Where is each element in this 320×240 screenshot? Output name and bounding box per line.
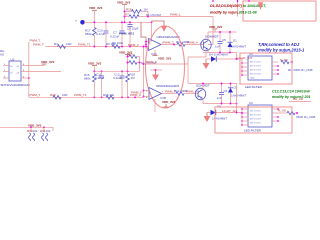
resistor R21 rung B: [128, 61, 140, 65]
wire exit top right of box C: [289, 97, 311, 102]
svg-text:OPA2340UA/2K5: OPA2340UA/2K5: [157, 35, 180, 39]
wire PWM_T vertical: [28, 42, 30, 97]
resistor R14 330R: [280, 58, 313, 72]
resistor R31 vertical: [40, 127, 51, 142]
svg-text:0.22uF: 0.22uF: [113, 76, 123, 80]
diode D1 1N4148WT: [228, 32, 247, 53]
wire center rail y=71.3: [94, 70, 139, 72]
wire stub top edge: [237, 0, 239, 17]
svg-text:IN2 VOUT2: IN2 VOUT2: [250, 114, 262, 116]
transistor Q2: [195, 84, 210, 100]
svg-text:IN1 VOUT1: IN1 VOUT1: [250, 62, 262, 64]
svg-text:1M: 1M: [144, 7, 149, 11]
wire U5 input bus: [236, 53, 238, 60]
resistor R15 vertical: [84, 71, 96, 97]
resistor R18 vertical: [126, 71, 136, 97]
svg-text:LIGHT_AD: LIGHT_AD: [222, 109, 238, 113]
svg-text:VDD_3V3: VDD_3V3: [158, 57, 172, 61]
svg-text:10k: 10k: [46, 129, 51, 133]
power VDD_3V3 center-left: [89, 6, 103, 22]
diode D2 1N4148WT: [228, 84, 246, 104]
svg-text:680k: 680k: [85, 32, 92, 36]
IC U2: [1, 57, 31, 87]
svg-text:GND: GND: [250, 78, 255, 80]
power VDD_3V3 upper stage: [209, 25, 223, 32]
resistor R28 rung1: [125, 7, 149, 13]
svg-text:1uF: 1uF: [217, 96, 222, 100]
svg-text:IN3 VOUT3: IN3 VOUT3: [250, 118, 262, 120]
junction dots op-amp inputs: [145, 41, 147, 48]
capacitor C9 10pF: [127, 22, 139, 46]
svg-text:IN1 VOUT1: IN1 VOUT1: [250, 110, 262, 112]
svg-text:0.47uF: 0.47uF: [96, 32, 106, 36]
svg-text:1N4148WT: 1N4148WT: [231, 45, 246, 49]
resistor R30 vertical: [27, 127, 38, 142]
svg-text:G: G: [75, 21, 77, 23]
resistor R19 10R: [50, 93, 68, 99]
junction dots upper stage: [219, 31, 231, 53]
svg-text:LED FILTER: LED FILTER: [244, 129, 262, 133]
svg-text:VDD_3V3: VDD_3V3: [28, 123, 42, 127]
ground arrow bottom row: [204, 113, 211, 123]
svg-text:R6 10k: R6 10k: [106, 42, 116, 46]
svg-text:VDD_3V3: VDD_3V3: [88, 62, 102, 66]
wire left bottom rail y=127.3: [0, 127, 53, 131]
svg-text:IN2 VOUT2: IN2 VOUT2: [250, 66, 262, 68]
capacitor C10: [96, 22, 109, 46]
annotation box B around U5: [240, 53, 292, 84]
capacitor C12 vertical: [113, 71, 125, 97]
svg-text:VDD_3V3: VDD_3V3: [209, 25, 223, 29]
wire bottom rail lower stage: [203, 103, 237, 105]
net label RH_AD left: [0, 49, 5, 57]
annotation text D1,D2,D3,D9 note: [210, 4, 266, 15]
op-amp U3A: [146, 39, 164, 57]
IC U6: [241, 101, 279, 133]
top edge magenta ticks: [213, 0, 249, 2]
resistor R12 100R: [174, 89, 198, 95]
resistor R13: [278, 108, 315, 119]
svg-text:modify by xujunc2 201: modify by xujunc2 201: [272, 95, 311, 99]
ground arrow under wire y=70: [152, 70, 159, 81]
svg-text:U2: U2: [11, 57, 15, 61]
svg-text:modify by xujun,2013-1: modify by xujun,2013-1: [258, 48, 305, 53]
wire bottom PWM row y=97.3: [29, 96, 144, 98]
resistor R4: [54, 42, 72, 48]
wire U2 pin4 to PWM_T vertical: [27, 77, 29, 79]
svg-text:33R0 Rx_FDB: 33R0 Rx_FDB: [296, 115, 315, 119]
resistor R6: [106, 42, 120, 48]
svg-text:C6: C6: [224, 89, 228, 93]
power VDD_3V3 center rail: [88, 62, 102, 72]
svg-text:D4 1N4148WT: D4 1N4148WT: [209, 53, 229, 57]
capacitor C7 0.22uF: [110, 22, 125, 46]
svg-text:10k: 10k: [33, 129, 38, 133]
op-amp U3B: [146, 88, 166, 101]
wire U6 input bus: [241, 109, 243, 125]
svg-text:R_AD: R_AD: [278, 108, 287, 112]
resistor R16 10k: [103, 93, 115, 99]
svg-text:C5: C5: [222, 38, 226, 42]
wire Q2 emitter: [202, 99, 204, 104]
wire U2 pin6 to VDD: [27, 60, 55, 66]
svg-text:R16 10k: R16 10k: [103, 93, 115, 97]
svg-text:D8: D8: [217, 105, 221, 109]
wire feedback into op-amp + input: [141, 22, 146, 44]
svg-text:IN4 VOUT4: IN4 VOUT4: [250, 74, 262, 76]
wire Q2 collector to rail y=83: [202, 84, 204, 90]
annotation arrow top: [258, 2, 263, 10]
svg-text:R28: R28: [126, 7, 132, 11]
annotation text C12,C13,C14: [272, 90, 311, 100]
wire op-amp1 output: [161, 44, 177, 46]
wire bottom rail upper stage: [203, 52, 237, 54]
diode D8 1N4148WT: [211, 105, 228, 121]
svg-text:PWM_T: PWM_T: [30, 39, 41, 43]
annotation box C around U6: [215, 107, 292, 133]
junction dots bottom row: [93, 96, 136, 98]
wire bottom row y=112.5: [207, 112, 242, 114]
svg-text:VDD_3V3: VDD_3V3: [117, 0, 131, 4]
vertical feedback wire x=143.5: [143, 47, 145, 97]
svg-text:IN4 VOUT4: IN4 VOUT4: [250, 122, 262, 124]
transistor Q1: [200, 35, 219, 51]
svg-text:PWM_T: PWM_T: [30, 93, 41, 97]
svg-text:PWM_AD1: PWM_AD1: [119, 32, 134, 36]
svg-text:10R: 10R: [66, 42, 72, 46]
wire LIGHT row y=59: [206, 58, 242, 60]
capacitor C11 vertical: [95, 71, 105, 97]
wire lower rail down to LIGHT row: [236, 84, 238, 113]
wire top rail upper stage: [208, 31, 237, 33]
wire rung join vertical: [139, 57, 141, 72]
wire down to Q1 base: [208, 17, 213, 45]
ground arrow mid: [203, 59, 210, 69]
svg-text:modify by xujun,2013-11-08: modify by xujun,2013-11-08: [210, 11, 257, 15]
resistor R20 rung A: [127, 53, 140, 59]
junction dots lower stage: [202, 83, 237, 105]
svg-text:680k: 680k: [84, 77, 91, 81]
IC U5: [241, 52, 279, 89]
wire mid horizontal PWM_5: [144, 63, 189, 65]
resistor R7 rung2: [125, 12, 214, 18]
svg-text:OPA2340UA/2K5: OPA2340UA/2K5: [156, 84, 179, 88]
svg-text:VDD_3V3: VDD_3V3: [89, 6, 103, 10]
power VDD_3V3 mid: [119, 50, 133, 71]
wire rail y=83: [188, 83, 237, 85]
svg-text:C9 10pF: C9 10pF: [127, 27, 139, 31]
svg-text:VDD_3V3: VDD_3V3: [162, 100, 176, 104]
annotation arrow into ellipse: [152, 21, 168, 32]
wire VDD bus y=22.3: [84, 21, 152, 23]
wire rung1 to rung2: [147, 12, 149, 17]
ellipse annotation: [146, 26, 185, 108]
wire op-amp2 output: [162, 93, 177, 95]
annotation text T,RH connect: [258, 42, 305, 53]
svg-text:T_AD: T_AD: [280, 58, 289, 62]
capacitor C5 upper stage: [215, 32, 226, 53]
wire Q1 collector to rail: [207, 32, 209, 40]
svg-text:1N4148WT: 1N4148WT: [231, 94, 246, 98]
svg-text:1uF: 1uF: [215, 45, 220, 49]
svg-text:D1,D2,D3,D9(4007) to 1N4148WT,: D1,D2,D3,D9(4007) to 1N4148WT,: [210, 4, 266, 8]
junction dot output: [173, 44, 175, 46]
svg-text:R7: R7: [125, 12, 129, 16]
svg-text:C12,C13,C14 104/10nF: C12,C13,C14 104/10nF: [272, 90, 311, 94]
svg-text:D1: D1: [233, 39, 237, 43]
svg-text:10R: 10R: [62, 93, 68, 97]
junction dots bottom left: [30, 126, 45, 128]
svg-text:PWM_T: PWM_T: [33, 42, 44, 46]
wire y=70 with ground arrow: [150, 69, 162, 71]
wire U2 pin5: [27, 71, 61, 73]
svg-text:PWM_4: PWM_4: [187, 40, 198, 44]
svg-text:R19: R19: [50, 93, 56, 97]
capacitor C6 lower stage: [217, 84, 228, 104]
svg-text:PWM_5: PWM_5: [146, 60, 157, 64]
wires op-amp2 inputs: [144, 90, 150, 92]
wire Q1 emitter to rail: [207, 49, 209, 53]
svg-text:PWM_T1: PWM_T1: [78, 43, 91, 47]
svg-text:1N4148WT: 1N4148WT: [212, 117, 227, 121]
resistor R11 100R: [176, 40, 203, 46]
svg-text:SCHMIDT: SCHMIDT: [205, 35, 219, 39]
wire main input line y=46.5: [46, 46, 149, 48]
power VDD_3V3 op-amp U3A: [153, 50, 172, 61]
node GND off-page connector top-left: [75, 20, 85, 25]
svg-text:D3: D3: [234, 86, 238, 90]
svg-text:PWM_1: PWM_1: [170, 12, 181, 16]
svg-text:PWM_9: PWM_9: [130, 93, 141, 97]
svg-text:SN74LVC2G66DCUR: SN74LVC2G66DCUR: [1, 83, 31, 87]
svg-text:T,RH,connect to ADJ: T,RH,connect to ADJ: [258, 42, 300, 47]
svg-text:1M: 1M: [131, 76, 136, 80]
svg-text:R4: R4: [54, 42, 58, 46]
annotation box A top right: [243, 1, 316, 21]
power VDD_3V3 top-middle: [117, 0, 131, 22]
junction dots top network: [93, 11, 152, 24]
svg-text:U6: U6: [249, 101, 253, 105]
svg-text:0.47uF: 0.47uF: [95, 76, 105, 80]
svg-text:LED FILTER: LED FILTER: [245, 85, 263, 89]
resistor R17: [85, 22, 96, 46]
junction dots on y=46.5: [93, 46, 131, 48]
svg-text:IN3 VOUT3: IN3 VOUT3: [250, 70, 262, 72]
power VDD_3V3 op-amp U3B: [155, 99, 176, 112]
svg-text:PWM_3: PWM_3: [163, 41, 174, 45]
svg-text:VDD_3V3: VDD_3V3: [41, 60, 55, 64]
svg-text:PWM_T1: PWM_T1: [74, 93, 87, 97]
wire emitter rail to lower rail: [188, 53, 206, 84]
diode D4 1N4148WT: [209, 53, 229, 62]
junction dot: [236, 112, 238, 114]
